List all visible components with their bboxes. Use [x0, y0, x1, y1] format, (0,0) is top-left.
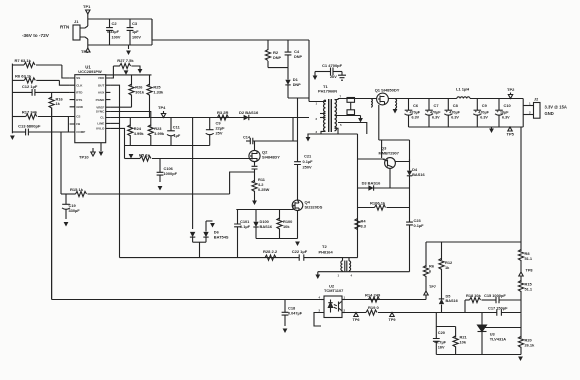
ground T2: [315, 275, 320, 280]
resistor R24: [129, 118, 131, 127]
op-amp U2 box: [324, 296, 342, 318]
svg-text:PGND: PGND: [96, 98, 106, 102]
svg-text:1µF: 1µF: [132, 30, 139, 34]
svg-text:TP6: TP6: [353, 318, 360, 322]
wire mid column to D6: [192, 118, 194, 230]
wire bootstrap drop: [292, 118, 294, 142]
svg-text:10µF: 10µF: [500, 110, 509, 114]
svg-text:7: 7: [340, 95, 342, 99]
wire C20 box top: [435, 313, 437, 327]
wire U3 ref: [485, 327, 522, 329]
capacitor C23: [406, 222, 413, 225]
capacitor C4: [287, 40, 289, 52]
svg-text:2kV: 2kV: [330, 75, 337, 79]
wire clamp bottom rail: [256, 238, 298, 240]
wire VDD rail: [106, 74, 152, 76]
svg-text:C10: C10: [504, 103, 512, 108]
ground fb: [518, 357, 523, 362]
svg-text:RTN: RTN: [60, 25, 69, 30]
wire R2 C4 join: [268, 67, 288, 69]
transistor Q2: [254, 141, 256, 150]
resistor R26: [131, 75, 133, 86]
test point TP9: [390, 313, 394, 317]
ground center tap: [358, 118, 363, 123]
capacitor C9: [209, 118, 211, 130]
svg-text:3.3: 3.3: [361, 224, 367, 229]
snubber DNP box2: [347, 110, 355, 115]
choke left of Q1: [371, 99, 372, 107]
wire T2 bottom rail: [318, 271, 410, 273]
wire main bottom rail: [120, 257, 300, 259]
svg-text:C11: C11: [173, 125, 181, 130]
capacitor C18: [284, 300, 286, 313]
U2 LED: [328, 300, 332, 313]
transformer T1 secondary winding: [335, 100, 337, 131]
svg-text:51.1: 51.1: [525, 256, 533, 261]
resistor R23: [148, 125, 153, 136]
capacitor C7 output: [428, 99, 430, 111]
resistor R100: [279, 210, 281, 220]
svg-text:C14: C14: [243, 136, 251, 140]
svg-text:R14 249: R14 249: [365, 293, 381, 298]
svg-text:C9: C9: [482, 103, 488, 108]
wire main mid rail: [110, 117, 309, 119]
svg-text:2: 2: [529, 111, 531, 115]
svg-text:25V: 25V: [216, 131, 223, 136]
snubber DNP box1: [347, 98, 355, 103]
svg-text:0.1µF: 0.1µF: [240, 224, 251, 229]
capacitor C6 output: [408, 99, 410, 111]
svg-text:0.1µF: 0.1µF: [414, 223, 425, 228]
svg-text:MMBT2907: MMBT2907: [379, 151, 399, 156]
wire D6 join: [193, 241, 206, 243]
svg-text:T2: T2: [322, 244, 327, 249]
ground output: [489, 129, 494, 134]
svg-text:TP9: TP9: [389, 318, 396, 322]
wire D1 to primary column: [288, 97, 309, 99]
svg-text:470µF: 470µF: [410, 110, 421, 114]
wire Q2 gate: [250, 155, 252, 157]
svg-text:C8: C8: [453, 103, 459, 108]
svg-text:TP1: TP1: [83, 4, 91, 9]
transistor Q3: [385, 158, 396, 169]
svg-text:Q1 SI4850DY: Q1 SI4850DY: [375, 88, 400, 93]
ground C1: [341, 72, 343, 76]
svg-text:BAS16: BAS16: [446, 299, 458, 303]
svg-text:TP2: TP2: [507, 87, 515, 92]
svg-text:DNP: DNP: [273, 56, 281, 60]
svg-text:R28 2.2: R28 2.2: [263, 249, 278, 254]
test point TP5: [508, 127, 512, 131]
svg-text:3.3V @ 15A: 3.3V @ 15A: [545, 105, 567, 110]
U1 bottom pad pin: [100, 143, 102, 151]
svg-text:AUX: AUX: [98, 91, 104, 95]
svg-text:FB: FB: [76, 122, 81, 126]
svg-text:470µF: 470µF: [478, 110, 489, 114]
resistor R6 fb: [425, 242, 427, 267]
svg-text:D3 BAS16: D3 BAS16: [362, 181, 381, 186]
svg-text:26.1k: 26.1k: [525, 343, 536, 348]
svg-text:C18: C18: [288, 306, 296, 311]
svg-text:DNP: DNP: [294, 55, 302, 59]
capacitor C21: [297, 98, 299, 162]
svg-text:D1: D1: [293, 77, 299, 82]
wire pin6 pin8 link: [67, 117, 69, 133]
transformer T1 primary winding: [324, 100, 326, 131]
capacitor C3: [129, 19, 131, 28]
svg-text:R27 7.5k: R27 7.5k: [117, 58, 134, 63]
wire U2 pin3: [314, 313, 324, 327]
svg-text:LINE: LINE: [97, 122, 104, 126]
svg-text:5: 5: [340, 123, 342, 127]
svg-text:0.33µF: 0.33µF: [107, 30, 120, 34]
wire Q1 source down: [378, 105, 380, 140]
wire Q3 top rail: [379, 139, 410, 141]
svg-text:301k: 301k: [135, 90, 145, 95]
wire output sense column: [520, 127, 522, 242]
wire pin to gate column: [110, 128, 124, 158]
wire secondary rail right: [388, 98, 456, 100]
resistor R21: [455, 327, 457, 338]
svg-text:-36V to -72V: -36V to -72V: [22, 33, 50, 38]
svg-text:J2: J2: [534, 98, 538, 102]
transformer T2 core: [345, 261, 347, 272]
capacitor C11: [170, 118, 172, 131]
test point TP8: [519, 272, 523, 276]
svg-text:GND: GND: [76, 105, 84, 109]
diode D4: [409, 140, 411, 171]
svg-text:1µF: 1µF: [174, 133, 181, 138]
wire pin to R23 top: [110, 112, 150, 118]
svg-text:4.99k: 4.99k: [134, 131, 145, 136]
svg-text:0.25W: 0.25W: [258, 187, 270, 192]
arrow onto VDD rail: [124, 70, 129, 75]
ground left rail: [10, 136, 15, 141]
svg-text:C4: C4: [294, 49, 300, 54]
wire U2 pin4: [321, 299, 324, 301]
capacitor C2: [109, 19, 111, 28]
capacitor C101: [237, 210, 239, 225]
resistor R12: [441, 242, 443, 260]
svg-text:1k: 1k: [56, 101, 61, 106]
wire Q4 source: [297, 211, 299, 239]
svg-text:3: 3: [319, 309, 321, 313]
wire left input rail: [11, 64, 13, 134]
wire R7 to pin1: [62, 65, 70, 78]
capacitor C106: [159, 159, 161, 173]
svg-text:C15 1000pF: C15 1000pF: [484, 293, 506, 298]
wire R14 rail: [342, 299, 426, 301]
wire pin 123 to bus: [110, 122, 119, 124]
svg-text:CL: CL: [100, 116, 104, 120]
wire C13 column: [60, 132, 62, 194]
svg-text:1.33k: 1.33k: [153, 90, 164, 95]
wire R6 to pin2: [59, 80, 69, 85]
svg-text:C6: C6: [413, 103, 419, 108]
connector J1: [73, 25, 80, 40]
svg-text:6.3V: 6.3V: [432, 116, 440, 120]
svg-text:TP8: TP8: [526, 269, 533, 273]
wire sense rail: [426, 241, 521, 243]
svg-text:R2: R2: [273, 50, 279, 55]
transformer T2 primary: [341, 261, 343, 271]
svg-text:250V: 250V: [303, 165, 313, 170]
svg-text:R19 0: R19 0: [368, 305, 379, 310]
U1 right pin stubs: [106, 78, 111, 128]
svg-text:RTS: RTS: [76, 98, 82, 102]
svg-text:10k: 10k: [283, 224, 290, 229]
svg-text:1: 1: [529, 102, 531, 106]
svg-text:CS: CS: [76, 115, 80, 119]
svg-text:C12 1µF: C12 1µF: [22, 84, 38, 89]
wire Q4 gate rail: [236, 205, 293, 209]
snubber link: [350, 102, 352, 110]
T1 primary mid stubs: [320, 113, 326, 115]
svg-text:+: +: [497, 110, 499, 114]
wire input right edge: [151, 19, 153, 45]
svg-text:TP5: TP5: [507, 132, 515, 137]
svg-text:GND: GND: [545, 111, 554, 116]
wire bus to primary: [152, 39, 309, 41]
svg-text:SYNC: SYNC: [96, 110, 105, 114]
svg-text:PH17966N: PH17966N: [318, 89, 337, 94]
svg-text:+: +: [406, 110, 408, 114]
svg-text:2: 2: [316, 117, 318, 121]
resistor R25: [149, 75, 151, 86]
wire feedback jog: [230, 172, 255, 194]
capacitor C19: [65, 194, 67, 204]
svg-text:470µF: 470µF: [449, 110, 460, 114]
wire lower mid rail: [125, 145, 210, 147]
transistor Q4: [292, 200, 303, 211]
transformer T1 core: [329, 99, 332, 132]
resistor R8: [520, 242, 522, 251]
svg-text:TCMT1107: TCMT1107: [324, 288, 343, 293]
connector J2: [534, 103, 541, 119]
svg-text:BAS16: BAS16: [412, 172, 425, 177]
diode D6b: [205, 221, 207, 232]
svg-text:BAT54S: BAT54S: [214, 235, 229, 240]
svg-text:6.3V: 6.3V: [502, 116, 510, 120]
wire R26 to pin: [110, 106, 131, 108]
arrow on return rail: [306, 137, 311, 142]
shunt reference U3: [481, 313, 483, 326]
U2 transistor: [339, 302, 342, 312]
svg-text:L1 1µH: L1 1µH: [456, 87, 469, 92]
diode D1: [287, 68, 289, 80]
ground Q4 source: [295, 242, 300, 247]
svg-text:SS: SS: [76, 76, 80, 80]
wire fb bottom rail: [436, 354, 521, 356]
svg-text:UCC2891PW: UCC2891PW: [78, 69, 102, 74]
op-amp U1 box: [75, 75, 106, 143]
wire lower reset rail: [358, 187, 410, 189]
svg-text:SI4848DY: SI4848DY: [262, 155, 280, 160]
svg-text:6: 6: [429, 269, 432, 274]
svg-text:4.99k: 4.99k: [154, 131, 165, 136]
capacitor C10 output: [498, 99, 500, 111]
test point TP6: [354, 313, 358, 317]
wire bottom left rail: [52, 299, 324, 301]
wire output bottom rail: [409, 126, 524, 128]
svg-text:10k: 10k: [460, 340, 467, 345]
svg-text:+4.7µF: +4.7µF: [434, 341, 447, 345]
svg-text:C20: C20: [438, 330, 446, 335]
svg-text:51.1: 51.1: [525, 287, 533, 292]
svg-text:330µF: 330µF: [69, 208, 81, 213]
resistor R4: [355, 219, 360, 230]
svg-text:100V: 100V: [112, 36, 121, 40]
resistor R11: [252, 180, 257, 191]
wire input bottom rail: [88, 44, 152, 46]
capacitor C20: [435, 327, 437, 339]
svg-text:4: 4: [351, 274, 353, 278]
svg-text:C17 150pF: C17 150pF: [488, 306, 508, 311]
svg-text:TP10: TP10: [79, 155, 89, 160]
wire Q3 collector: [389, 168, 391, 188]
wire input top rail: [88, 18, 152, 20]
svg-text:1000pF: 1000pF: [164, 171, 178, 176]
svg-text:4: 4: [319, 296, 321, 300]
wire fb mid rail: [342, 312, 366, 314]
wire output right edge: [522, 99, 524, 128]
svg-text:OUT: OUT: [98, 83, 105, 87]
svg-text:+: +: [446, 110, 448, 114]
svg-text:VDD: VDD: [98, 76, 105, 80]
resistor R15 fb: [518, 281, 523, 292]
wire primary feed column: [308, 40, 310, 102]
svg-text:+: +: [427, 110, 429, 114]
svg-text:C21: C21: [304, 154, 312, 159]
svg-text:0.047µF: 0.047µF: [288, 312, 303, 316]
svg-text:D2 BAS16: D2 BAS16: [239, 110, 259, 115]
diode D100: [255, 210, 257, 222]
wire input left stubs: [87, 19, 89, 26]
wire U2 pin1: [342, 299, 345, 301]
svg-text:100V: 100V: [132, 36, 141, 40]
svg-text:C13 6800pF: C13 6800pF: [18, 124, 41, 129]
svg-text:C7: C7: [434, 103, 439, 108]
wire reset left column: [357, 134, 359, 258]
T1 secondary top pin: [335, 99, 339, 100]
wire Q3 emitter: [381, 140, 383, 158]
wire secondary rail left: [338, 98, 377, 100]
svg-text:RTD: RTD: [76, 91, 83, 95]
svg-text:C2: C2: [112, 21, 118, 26]
wire long mid column: [110, 85, 119, 257]
svg-text:J1: J1: [74, 19, 79, 24]
svg-text:6.3V: 6.3V: [412, 116, 420, 120]
resistor R2: [267, 40, 269, 50]
zener D7: [254, 162, 256, 166]
capacitor C8 output: [447, 99, 449, 111]
wire U2 pin2: [342, 312, 345, 314]
ground arrow below input: [128, 45, 130, 49]
wire secondary aux tap: [338, 123, 367, 135]
svg-text:6.3V: 6.3V: [451, 116, 459, 120]
transistor Q1: [377, 93, 389, 105]
svg-text:TP7: TP7: [429, 285, 436, 289]
wire left tall rail: [51, 108, 53, 300]
svg-text:DNP: DNP: [293, 83, 301, 87]
svg-text:2: 2: [344, 309, 346, 313]
T1 secondary bottom pin: [335, 128, 339, 134]
svg-text:+: +: [475, 110, 477, 114]
svg-text:3: 3: [316, 130, 318, 134]
svg-text:16V: 16V: [438, 346, 445, 350]
svg-text:C3: C3: [132, 21, 138, 26]
svg-text:COMP: COMP: [76, 130, 85, 134]
T1 primary top pin: [309, 100, 326, 102]
capacitor C9 output: [476, 99, 478, 111]
test point TP10: [91, 152, 95, 156]
resistor R5: [129, 154, 134, 159]
wire input rect to bus: [151, 19, 153, 40]
svg-text:6.3V: 6.3V: [480, 116, 488, 120]
resistor R20: [520, 328, 522, 339]
U1 left pin stubs: [70, 78, 75, 132]
svg-text:UVLO: UVLO: [96, 127, 105, 131]
svg-text:470µF: 470µF: [430, 110, 441, 114]
svg-text:PH8164: PH8164: [319, 250, 334, 255]
diode D6a: [190, 232, 195, 237]
svg-text:TLV431A: TLV431A: [490, 337, 507, 342]
svg-text:1: 1: [316, 102, 318, 106]
transformer T2 secondary: [349, 261, 351, 271]
svg-text:1k: 1k: [445, 265, 450, 270]
diode D5: [441, 296, 443, 299]
wire primary return rail: [307, 133, 357, 135]
svg-text:SI2320DS: SI2320DS: [305, 205, 323, 210]
svg-text:TP4: TP4: [158, 105, 166, 110]
svg-text:BAS16: BAS16: [260, 224, 273, 229]
choke right of Q1: [395, 99, 397, 109]
wire T2 top right: [343, 257, 358, 259]
svg-text:C1 4700pF: C1 4700pF: [322, 63, 343, 68]
svg-text:1: 1: [344, 296, 346, 300]
T1 secondary center tap: [335, 115, 361, 117]
wire pin1R to R27: [110, 66, 113, 78]
svg-text:0.1µF: 0.1µF: [303, 159, 314, 164]
T1 primary bottom pin: [321, 131, 326, 134]
svg-text:C22 1µF: C22 1µF: [292, 249, 308, 254]
svg-text:CLK: CLK: [76, 83, 83, 87]
wire Q3 base rail: [358, 158, 385, 160]
svg-text:1: 1: [338, 274, 340, 278]
